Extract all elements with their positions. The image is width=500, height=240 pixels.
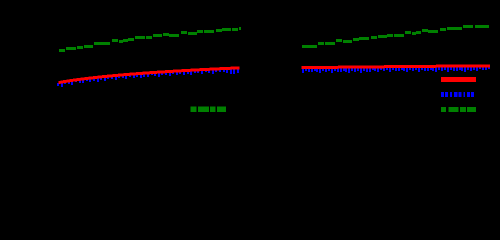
right panel red solid curve [302,66,490,68]
right panel legend green dashed swatch [441,107,476,112]
right panel blue dashed curve [302,66,490,73]
right panel green dashed curve [302,25,489,48]
left panel blue dashed curve [57,69,239,87]
right panel legend blue dashed swatch [441,92,474,97]
left panel red solid curve [59,68,240,83]
left panel legend green dashed swatch [191,107,226,112]
right panel legend red solid swatch [441,77,476,82]
left panel green dashed curve [59,27,241,52]
